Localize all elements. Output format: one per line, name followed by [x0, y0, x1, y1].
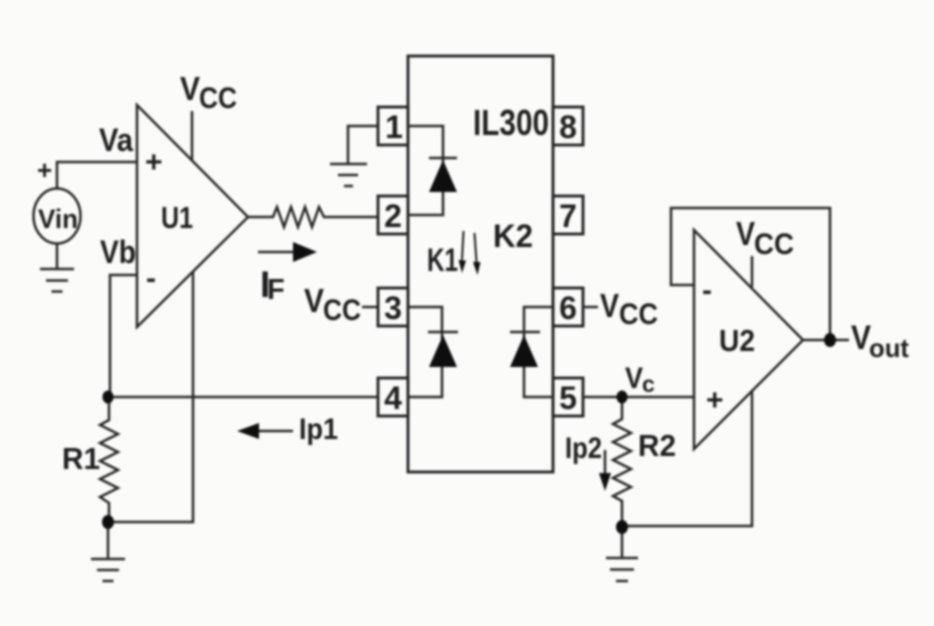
pin 2 box: [378, 196, 408, 234]
arrow Ip2: [604, 450, 607, 480]
svg-text:c: c: [642, 371, 655, 397]
svg-text:R1: R1: [62, 441, 100, 476]
svg-text:K1: K1: [427, 242, 458, 278]
junction U2 output: [824, 333, 836, 347]
ground below R2: [606, 558, 638, 581]
junction node Vb/R1/pin4: [103, 391, 114, 404]
wire U2 output to Vout: [803, 339, 849, 342]
svg-text:Ip1: Ip1: [299, 413, 338, 446]
wire pin 1 to ground: [348, 126, 378, 163]
resistor R1: [100, 398, 118, 523]
LED wires inside package: [408, 126, 443, 215]
svg-text:3: 3: [384, 290, 402, 326]
K1 cathode bar: [428, 331, 458, 334]
svg-text:2: 2: [384, 198, 402, 234]
svg-text:out: out: [869, 333, 909, 363]
svg-text:V: V: [736, 215, 755, 252]
arrow IF: [258, 251, 298, 254]
pin 8 box: [553, 107, 583, 145]
wire pin 6 to VCC: [583, 306, 598, 309]
pin 1 box: [378, 107, 408, 145]
svg-text:U2: U2: [719, 323, 755, 358]
arrowhead light a: [459, 260, 467, 273]
pin 5 box: [553, 378, 583, 416]
svg-text:V: V: [180, 70, 200, 107]
K2 triangle: [510, 335, 538, 367]
LED cathode bar: [429, 157, 457, 160]
svg-text:V: V: [304, 282, 324, 319]
arrowhead Ip1: [237, 423, 259, 439]
ground below R1: [91, 559, 125, 581]
svg-text:6: 6: [559, 290, 577, 326]
svg-text:Vb: Vb: [100, 234, 136, 270]
svg-text:V: V: [600, 287, 619, 324]
junction R2 bottom: [616, 520, 628, 534]
svg-text:CC: CC: [323, 294, 361, 327]
wire R1 bottom to ground: [107, 528, 110, 558]
op-amp U2: [694, 230, 803, 449]
svg-text:+: +: [145, 146, 163, 179]
arrowhead Ip2: [599, 473, 611, 491]
resistor between U1 output and pin 2: [248, 207, 377, 227]
light arrow a: [462, 231, 464, 260]
resistor R2: [613, 397, 631, 527]
svg-text:Ip2: Ip2: [565, 432, 602, 465]
svg-text:R2: R2: [638, 428, 676, 463]
LED triangle: [429, 160, 457, 192]
IL300 package body: [408, 56, 553, 472]
arrowhead IF: [293, 242, 317, 262]
ground below Vin: [40, 269, 74, 292]
svg-text:5: 5: [559, 380, 577, 416]
photodiode K1 wires: [408, 307, 442, 397]
svg-text:+: +: [706, 384, 724, 417]
svg-text:-: -: [702, 274, 712, 307]
K2 cathode bar: [510, 331, 540, 334]
svg-text:IL300: IL300: [473, 102, 549, 143]
svg-text:K2: K2: [493, 218, 533, 254]
wire R2 bottom to U2 V- edge: [622, 391, 752, 526]
arrow Ip1: [254, 430, 293, 433]
svg-text:+: +: [37, 155, 52, 185]
wire Vin top to U1 + input (node Va): [57, 162, 137, 189]
junction node Vc: [617, 391, 628, 404]
svg-text:U1: U1: [161, 200, 193, 235]
arrowhead light b: [473, 262, 481, 275]
svg-text:F: F: [267, 274, 285, 306]
svg-text:4: 4: [384, 380, 402, 416]
op-amp U1: [137, 105, 248, 327]
wire VCC tick of U1: [191, 111, 194, 161]
ground at pin 1: [330, 164, 367, 186]
svg-text:CC: CC: [754, 228, 794, 261]
photodiode K2 wires: [524, 307, 553, 397]
junction R1 bottom: [102, 515, 114, 529]
svg-text:CC: CC: [199, 82, 237, 115]
pin 7 box: [553, 196, 583, 234]
wire feedback loop U2 output to - input: [671, 208, 830, 340]
pin 3 box: [378, 288, 408, 326]
pin 6 box: [553, 288, 583, 326]
wire R1 bottom to U1 V- edge: [108, 272, 193, 522]
wire Vin bottom to ground: [56, 244, 59, 268]
wire VCC tick of U2: [751, 256, 754, 287]
wire Vb jog from U1 - input: [110, 275, 137, 398]
pin 4 box: [378, 378, 408, 416]
voltage source Vin: [34, 189, 81, 244]
light arrow b: [475, 233, 477, 262]
wire pin 5 to U2 + input (node Vc): [583, 396, 694, 399]
svg-text:CC: CC: [619, 298, 658, 331]
svg-text:8: 8: [559, 109, 577, 145]
wire node Vb to pin 4: [108, 396, 378, 399]
wire VCC to pin 3: [362, 306, 378, 309]
wire R2 bottom to ground: [621, 532, 624, 557]
svg-text:V: V: [625, 362, 643, 395]
K1 triangle: [429, 335, 457, 367]
svg-text:7: 7: [559, 198, 577, 234]
svg-text:Vin: Vin: [38, 204, 78, 234]
svg-text:-: -: [146, 262, 156, 295]
svg-text:Va: Va: [99, 122, 133, 158]
svg-text:1: 1: [385, 109, 403, 145]
